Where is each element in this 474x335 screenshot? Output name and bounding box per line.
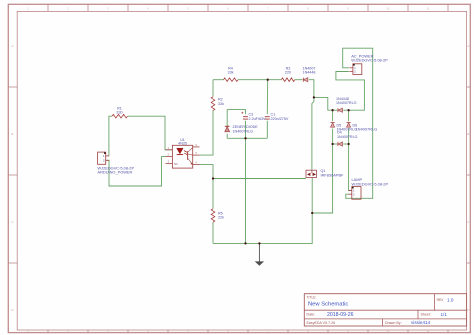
svg-text:ARDUINO_POWER: ARDUINO_POWER [98, 170, 133, 175]
wire top rail R4 to junction to R3 [238, 79, 281, 81]
wire C1 top column [266, 80, 268, 115]
svg-text:Sheet:: Sheet: [421, 312, 431, 316]
node bridge bottom-left [331, 143, 333, 145]
title block [304, 294, 466, 326]
svg-text:1N4007RLG: 1N4007RLG [337, 135, 358, 139]
svg-text:1.0: 1.0 [447, 298, 454, 303]
wire zener loop top [227, 108, 245, 110]
wire bridge right arm lower [348, 129, 350, 144]
wire R5 to bottom rail [212, 222, 214, 243]
svg-text:B: B [467, 132, 469, 136]
node junction top rail / C1 [267, 79, 269, 81]
svg-text:A: A [467, 44, 469, 48]
svg-text:REV: REV [437, 298, 445, 302]
resistor R4 [224, 66, 239, 81]
node bottom rail / ground [258, 242, 260, 244]
svg-text:2018-09-26: 2018-09-26 [327, 312, 354, 318]
svg-text:EasyEDA V5.7.26: EasyEDA V5.7.26 [307, 321, 336, 325]
svg-text:1N4007RLG: 1N4007RLG [336, 101, 357, 105]
resistor R1 [112, 106, 127, 118]
svg-text:D: D [467, 308, 469, 312]
wire top rail diode to corner, down to zero-cross node [309, 80, 314, 98]
wire bridge left arm [332, 110, 334, 121]
diode D2 1N4007/1N4448 [303, 66, 316, 82]
svg-text:C: C [467, 220, 469, 224]
wire left column rail to R2 [212, 80, 214, 97]
diode D6 bridge right [347, 123, 378, 132]
svg-text:B: B [11, 132, 13, 136]
connector AC_POWER [349, 53, 388, 74]
wire bridge top row [333, 109, 338, 111]
wire center vertical to bottom rail [245, 138, 247, 243]
connector ARDUINO_POWER [98, 152, 135, 174]
wire AC pin2 to bridge top-right [336, 72, 365, 111]
svg-text:33k: 33k [218, 102, 224, 106]
svg-text:IRF830APBF: IRF830APBF [321, 172, 345, 177]
wire C3 bottom stub [245, 121, 247, 139]
wire top rail left segment [213, 79, 224, 81]
svg-text:WJ2EDGVC-5.08-2P: WJ2EDGVC-5.08-2P [351, 58, 388, 63]
wire bottom rail and MOSFET source column [213, 177, 312, 243]
wire bridge bottom row [333, 143, 338, 145]
svg-text:220n/275V: 220n/275V [271, 117, 289, 121]
node gate junction [212, 177, 214, 179]
wire gate net [213, 178, 306, 180]
svg-text:2.2uF/63V: 2.2uF/63V [249, 117, 267, 121]
wire zener top stub [226, 109, 228, 126]
resistor R3 [281, 66, 294, 81]
wire bridge bottom-left to MOSFET source node [312, 144, 332, 213]
wire zero-cross to bridge top-left [314, 97, 333, 110]
node bridge top-right [347, 109, 349, 111]
svg-text:A: A [11, 44, 13, 48]
wire R1 to opto anode [128, 116, 173, 150]
wire C1 bottom to loop [266, 121, 268, 139]
diode D5 bridge left [331, 123, 358, 132]
ground [255, 243, 264, 265]
svg-text:New Schematic: New Schematic [308, 301, 348, 307]
op-amp U1 4N35 optocoupler [166, 138, 200, 168]
zener diode Z1 [225, 125, 258, 133]
svg-text:C: C [11, 220, 13, 224]
svg-text:WJ2EDGVC-5.08-2P: WJ2EDGVC-5.08-2P [352, 181, 389, 186]
svg-text:1N4007RLG: 1N4007RLG [356, 127, 378, 132]
node bridge top-left [331, 109, 333, 111]
diode D4 bridge bottom [337, 131, 358, 147]
capacitor C3 [241, 112, 266, 121]
wire loop bottom [227, 137, 267, 139]
wire MOSFET drain column [312, 97, 314, 170]
diode D7 bridge top [336, 97, 357, 113]
resistor R5 [211, 209, 224, 222]
wire bridge bottom-right to LAMP pin1 [349, 144, 352, 191]
transistor Q1 MOSFET [306, 169, 344, 178]
svg-text:vissie414: vissie414 [411, 320, 431, 325]
wire ARDUINO pin1 to R1 to opto anode [109, 116, 112, 156]
svg-text:NC: NC [174, 162, 178, 166]
wire R2 to opto collector [200, 110, 214, 155]
svg-text:220: 220 [285, 71, 291, 75]
wire opto emitter down to R5 [200, 165, 214, 209]
svg-text:330: 330 [116, 110, 122, 114]
svg-text:22k: 22k [218, 216, 224, 220]
resistor R2 [211, 97, 224, 111]
svg-text:4N35: 4N35 [178, 142, 187, 146]
svg-text:Drawn By:: Drawn By: [385, 321, 402, 325]
capacitor C1 [265, 113, 289, 121]
wire AC pin1 loop to LAMP pin2 [343, 48, 373, 198]
wire zener bottom stub [226, 134, 228, 139]
svg-text:1N4007RLG: 1N4007RLG [233, 130, 254, 134]
svg-text:33k: 33k [228, 71, 234, 75]
node MOSFET source / lamp return [311, 212, 313, 214]
wire opto cathode to ARDUINO pin2 [106, 157, 166, 186]
svg-text:1N4448: 1N4448 [303, 71, 316, 75]
wire C3 top stub [245, 109, 247, 114]
node zero-cross junction [313, 96, 315, 98]
connector LAMP [348, 177, 388, 199]
svg-text:D: D [11, 308, 13, 312]
wire bridge left arm lower [332, 129, 334, 144]
svg-text:1/1: 1/1 [441, 312, 448, 317]
wire top rail R3 to diode [295, 79, 303, 81]
wire bridge right arm [348, 110, 350, 121]
svg-text:TITLE:: TITLE: [307, 295, 317, 299]
svg-text:Date:: Date: [307, 312, 316, 316]
node bridge bottom-right [347, 143, 349, 145]
node loop bottom junction [244, 137, 246, 139]
node bottom rail / center vertical [244, 242, 246, 244]
